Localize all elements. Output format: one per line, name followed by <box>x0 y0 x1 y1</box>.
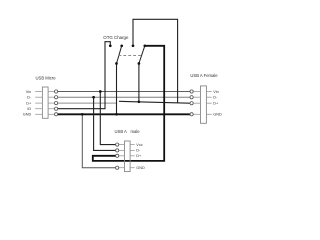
svg-text:ID: ID <box>27 107 31 111</box>
svg-text:D+: D+ <box>26 101 32 105</box>
svg-text:Vcc: Vcc <box>136 143 142 147</box>
svg-text:GND: GND <box>23 113 32 117</box>
svg-text:Vin: Vin <box>213 90 218 94</box>
svg-text:D+: D+ <box>136 154 142 158</box>
svg-text:GND: GND <box>213 113 222 117</box>
svg-text:D+: D+ <box>213 102 219 106</box>
svg-text:USB A: USB A <box>115 129 128 134</box>
svg-text:Vin: Vin <box>26 90 31 94</box>
svg-text:USB Micro: USB Micro <box>36 75 57 80</box>
svg-text:GND: GND <box>136 166 145 170</box>
svg-text:OTG Charge: OTG Charge <box>103 35 129 40</box>
svg-text:male: male <box>131 129 141 134</box>
svg-text:USB A Female: USB A Female <box>190 73 218 78</box>
